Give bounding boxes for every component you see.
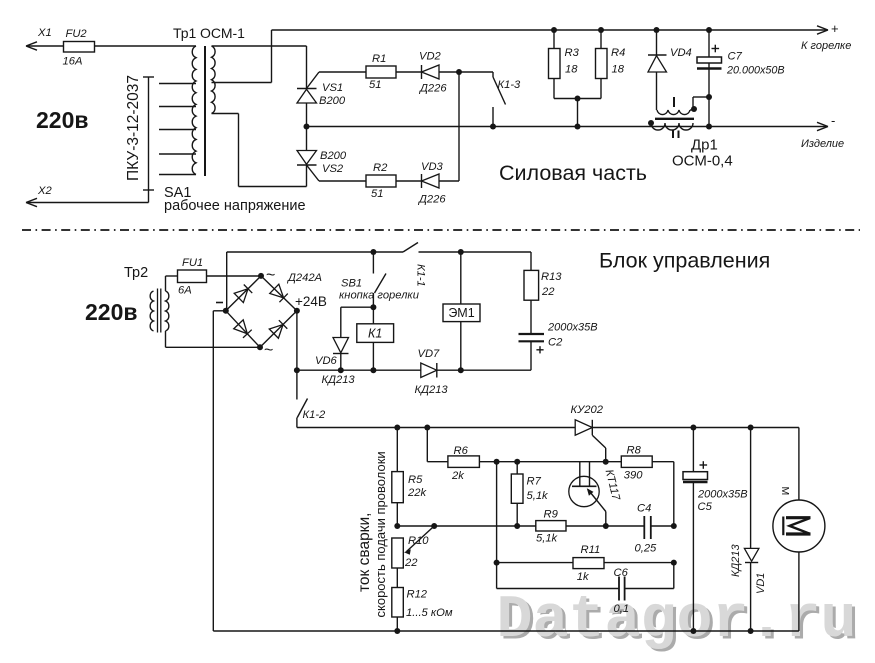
svg-text:6A: 6A: [178, 285, 192, 297]
svg-text:1k: 1k: [577, 571, 590, 583]
svg-text:2k: 2k: [451, 470, 465, 482]
svg-text:Тр2: Тр2: [124, 265, 148, 281]
svg-text:R6: R6: [454, 445, 469, 457]
svg-text:КУ202: КУ202: [571, 404, 604, 416]
svg-text:Datagor.ru: Datagor.ru: [497, 587, 857, 655]
svg-text:R3: R3: [565, 47, 580, 59]
svg-text:FU2: FU2: [66, 28, 88, 40]
svg-text:C7: C7: [728, 51, 743, 63]
svg-text:22: 22: [404, 557, 418, 569]
svg-text:390: 390: [624, 470, 643, 482]
svg-text:5,1k: 5,1k: [527, 490, 550, 502]
svg-text:R12: R12: [407, 589, 428, 601]
svg-text:~: ~: [266, 267, 275, 284]
svg-text:220в: 220в: [36, 107, 89, 133]
svg-text:R11: R11: [581, 544, 601, 556]
svg-text:R5: R5: [408, 474, 423, 486]
svg-text:R13: R13: [541, 271, 562, 283]
svg-text:VS2: VS2: [322, 163, 344, 175]
svg-text:C6: C6: [614, 567, 629, 579]
svg-text:Изделие: Изделие: [801, 138, 844, 150]
svg-text:R8: R8: [627, 445, 642, 457]
svg-text:51: 51: [371, 188, 383, 200]
svg-text:2000x35В: 2000x35В: [697, 489, 748, 501]
svg-text:VD7: VD7: [418, 348, 441, 360]
svg-text:R7: R7: [527, 476, 542, 488]
svg-text:VD4: VD4: [670, 47, 692, 59]
svg-text:скорость подачи проволоки: скорость подачи проволоки: [373, 451, 388, 617]
svg-text:М: М: [779, 487, 791, 496]
svg-text:1...5 кОм: 1...5 кОм: [406, 607, 453, 619]
svg-text:C5: C5: [698, 501, 713, 513]
svg-text:0,25: 0,25: [635, 543, 658, 555]
svg-text:18: 18: [612, 64, 625, 76]
svg-text:ПКУ-3-12-2037: ПКУ-3-12-2037: [125, 75, 142, 181]
svg-text:FU1: FU1: [182, 257, 203, 269]
svg-text:Блок управления: Блок управления: [599, 249, 770, 273]
svg-text:Др1: Др1: [691, 137, 718, 154]
svg-text:R2: R2: [373, 162, 388, 174]
svg-text:5,1k: 5,1k: [536, 533, 559, 545]
svg-text:-: -: [831, 113, 835, 128]
svg-text:R1: R1: [372, 53, 386, 65]
svg-text:рабочее напряжение: рабочее напряжение: [164, 198, 306, 214]
svg-text:VD3: VD3: [421, 161, 444, 173]
svg-text:+: +: [831, 21, 839, 36]
svg-text:X1: X1: [37, 27, 52, 39]
svg-text:VD6: VD6: [315, 355, 338, 367]
svg-text:VD2: VD2: [419, 51, 442, 63]
svg-text:~: ~: [264, 342, 273, 359]
svg-text:B200: B200: [319, 95, 346, 107]
svg-text:51: 51: [369, 79, 381, 91]
svg-text:К1-3: К1-3: [498, 79, 522, 91]
svg-text:B200: B200: [320, 150, 347, 162]
svg-text:ОСМ-1: ОСМ-1: [200, 25, 245, 41]
svg-text:К1-2: К1-2: [303, 409, 327, 421]
svg-text:К горелке: К горелке: [801, 40, 851, 52]
svg-text:2000x35В: 2000x35В: [547, 322, 598, 334]
svg-text:22: 22: [541, 286, 555, 298]
svg-text:18: 18: [565, 64, 578, 76]
svg-text:ЭМ1: ЭМ1: [448, 306, 474, 320]
svg-text:0,1: 0,1: [614, 603, 630, 615]
svg-text:R10: R10: [408, 535, 429, 547]
svg-text:КД213: КД213: [415, 384, 449, 396]
svg-text:Тр1: Тр1: [173, 25, 197, 41]
svg-text:SB1: SB1: [341, 278, 362, 290]
svg-text:C4: C4: [637, 503, 651, 515]
svg-text:R4: R4: [611, 47, 625, 59]
svg-text:кнопка горелки: кнопка горелки: [339, 290, 419, 302]
svg-text:Д226: Д226: [417, 194, 446, 206]
svg-text:ток сварки,: ток сварки,: [356, 513, 373, 592]
svg-text:К1: К1: [368, 327, 382, 341]
svg-text:КД213: КД213: [322, 374, 356, 386]
svg-text:Д242A: Д242A: [286, 272, 322, 284]
svg-text:C2: C2: [548, 337, 563, 349]
svg-text:VD1: VD1: [755, 573, 767, 594]
svg-text:220в: 220в: [85, 299, 138, 325]
svg-text:VS1: VS1: [322, 82, 343, 94]
svg-text:20.000x50В: 20.000x50В: [726, 65, 785, 77]
svg-text:+24В: +24В: [295, 294, 327, 309]
svg-text:К1-1: К1-1: [415, 264, 427, 287]
svg-text:X2: X2: [37, 185, 52, 197]
svg-text:КД213: КД213: [730, 544, 742, 577]
svg-text:Д226: Д226: [418, 83, 447, 95]
svg-text:22k: 22k: [407, 487, 427, 499]
svg-text:R9: R9: [544, 509, 558, 521]
svg-text:16A: 16A: [63, 56, 83, 68]
svg-text:Силовая часть: Силовая часть: [499, 161, 647, 185]
svg-text:ОСМ-0,4: ОСМ-0,4: [672, 153, 733, 170]
